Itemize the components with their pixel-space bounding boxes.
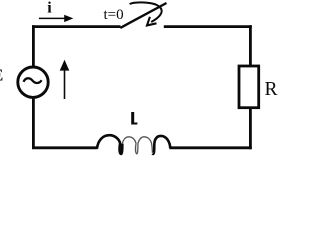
inductor L1: middle thin arcs and small loops	[122, 137, 152, 154]
switch closing arrow (curved)	[130, 2, 162, 22]
wire: bottom-left horizontal	[32, 146, 97, 149]
svg-text:E: E	[0, 65, 3, 84]
svg-text:R: R	[265, 79, 278, 100]
wire: left vertical lower (source bottom to corner)	[32, 98, 35, 150]
wire: top-right horizontal segment	[164, 25, 252, 28]
source E1: AC source circle	[18, 67, 48, 97]
svg-text:t=0: t=0	[104, 7, 124, 23]
wire: top-left horizontal segment	[32, 25, 120, 28]
resistor R1 (box)	[239, 66, 259, 108]
arrow: source voltage direction (upward)	[64, 69, 66, 99]
wire: right vertical upper (corner to resistor top)	[249, 25, 252, 66]
wire: left vertical upper (corner to source top)	[32, 25, 35, 67]
arrow: current direction (rightward)	[39, 17, 65, 19]
inductor L1: left thick hump + loop	[97, 135, 122, 154]
switch blade (open)	[120, 3, 166, 28]
svg-text:i: i	[47, 0, 52, 16]
wire: right vertical lower (resistor bottom to corner)	[249, 108, 252, 149]
inductor L1: right loop upstroke + thick hump	[153, 136, 171, 154]
label L	[131, 112, 137, 125]
source E1: sine symbol	[24, 78, 42, 83]
wire: bottom-right horizontal	[170, 146, 252, 149]
